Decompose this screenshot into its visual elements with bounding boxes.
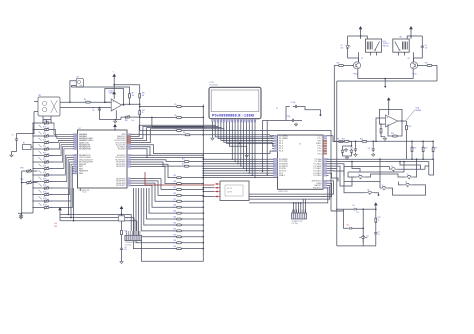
svg-text:LM358N: LM358N <box>415 110 421 112</box>
svg-text:RD7/PSP7: RD7/PSP7 <box>116 185 125 187</box>
svg-text:RT5: RT5 <box>43 146 46 148</box>
svg-text:R3: R3 <box>337 139 339 141</box>
svg-text:R25: R25 <box>414 147 417 149</box>
svg-text:P1.1/AIN1: P1.1/AIN1 <box>279 137 288 140</box>
svg-text:Q6: Q6 <box>407 174 409 176</box>
svg-text:R4: R4 <box>84 99 86 101</box>
svg-text:C2 22p: C2 22p <box>291 102 296 104</box>
svg-text:AT89C2051: AT89C2051 <box>279 190 288 193</box>
svg-text:RT12: RT12 <box>43 191 47 193</box>
svg-text:R31: R31 <box>174 223 177 225</box>
svg-text:CX2 Plug: CX2 Plug <box>292 223 299 225</box>
svg-text:R34: R34 <box>174 240 177 242</box>
svg-text:R25: R25 <box>174 187 177 189</box>
svg-text:CONNECTOR2: CONNECTOR2 <box>292 221 303 223</box>
svg-text:RT9: RT9 <box>43 172 46 174</box>
svg-text:RT7: RT7 <box>43 159 46 161</box>
svg-text:XTAL2: XTAL2 <box>316 142 322 145</box>
svg-text:C6: C6 <box>378 232 380 234</box>
svg-text:R10: R10 <box>142 93 145 95</box>
svg-text:Р0е08888888.8□∙138Ю: Р0е08888888.8□∙138Ю <box>212 114 255 118</box>
svg-text:RV2: RV2 <box>142 110 145 112</box>
svg-text:R32: R32 <box>174 228 177 230</box>
svg-text:R27: R27 <box>174 199 177 201</box>
svg-text:X2: X2 <box>127 218 129 220</box>
svg-text:R30: R30 <box>174 217 177 219</box>
svg-text:TR1: TR1 <box>38 95 41 97</box>
svg-text:LS1: LS1 <box>76 76 79 78</box>
svg-text:R5: R5 <box>175 104 177 106</box>
svg-text:R27: R27 <box>435 147 438 149</box>
svg-text:R17: R17 <box>425 62 428 64</box>
svg-text:R33: R33 <box>174 234 177 236</box>
svg-text:C9: C9 <box>425 45 427 47</box>
svg-text:C4: C4 <box>125 247 127 249</box>
svg-text:R9: R9 <box>132 93 134 95</box>
svg-text:R8: R8 <box>183 132 185 134</box>
svg-text:10k: 10k <box>142 95 145 97</box>
svg-text:P3.3: P3.3 <box>318 153 322 155</box>
svg-text:TORPBSW1 ICSP: TORPBSW1 ICSP <box>125 242 138 244</box>
svg-text:R26: R26 <box>174 193 177 195</box>
svg-text:RL2: RL2 <box>383 41 386 43</box>
svg-text:Q2: Q2 <box>408 58 410 60</box>
svg-text:VPP: VPP <box>54 226 57 228</box>
svg-text:RV1: RV1 <box>125 120 128 122</box>
svg-text:C8: C8 <box>92 108 94 110</box>
svg-text:12V: 12V <box>357 212 360 214</box>
svg-text:R35: R35 <box>174 246 177 248</box>
svg-text:P2.7/A15: P2.7/A15 <box>314 174 322 177</box>
svg-text:Q8: Q8 <box>405 182 407 184</box>
svg-text:KBE-12V: KBE-12V <box>383 45 389 47</box>
svg-text:LED: LED <box>341 47 344 49</box>
svg-text:Q1: Q1 <box>361 58 363 60</box>
svg-text:R12: R12 <box>182 163 185 165</box>
svg-text:RT3: RT3 <box>43 133 46 135</box>
svg-text:RT1: RT1 <box>43 120 46 122</box>
svg-text:10k: 10k <box>132 120 135 122</box>
svg-text:RD2/PSP2: RD2/PSP2 <box>116 166 125 168</box>
svg-text:R6: R6 <box>175 115 177 117</box>
svg-text:RE1/AN6/WR: RE1/AN6/WR <box>79 148 91 151</box>
svg-text:R14: R14 <box>360 138 363 140</box>
svg-text:TEXTELL-: TEXTELL- <box>383 43 390 45</box>
svg-text:R18: R18 <box>391 133 394 135</box>
svg-text:D2 RX: D2 RX <box>227 192 233 194</box>
svg-text:D7: D7 <box>341 45 343 47</box>
svg-text:D9: D9 <box>353 205 355 207</box>
svg-text:R29: R29 <box>174 211 177 213</box>
svg-text:RC4/SDI: RC4/SDI <box>118 149 126 151</box>
svg-text:D10: D10 <box>347 225 350 227</box>
svg-text:RL1: RL1 <box>400 37 403 39</box>
svg-text:R28: R28 <box>174 205 177 207</box>
svg-text:Q7: Q7 <box>382 185 384 187</box>
svg-text:Q4: Q4 <box>391 166 393 168</box>
svg-text:RT11: RT11 <box>43 185 47 187</box>
svg-text:MDLS16265: MDLS16265 <box>210 85 219 87</box>
svg-text:1u: 1u <box>378 234 380 236</box>
svg-text:Q5: Q5 <box>358 174 360 176</box>
svg-text:RT4: RT4 <box>43 139 46 141</box>
svg-text:R19: R19 <box>409 126 412 128</box>
svg-text:RT13: RT13 <box>43 198 47 200</box>
svg-text:R12: R12 <box>342 138 345 140</box>
svg-text:1uF: 1uF <box>425 47 428 49</box>
svg-text:10u: 10u <box>92 110 95 112</box>
svg-text:RT10: RT10 <box>43 178 47 180</box>
svg-text:Q9: Q9 <box>367 190 369 192</box>
svg-text:RT8: RT8 <box>43 165 46 167</box>
svg-text:X1: X1 <box>276 108 278 110</box>
svg-text:TIP122: TIP122 <box>353 74 358 76</box>
svg-text:RXD/P3.0: RXD/P3.0 <box>313 188 322 190</box>
svg-text:R11: R11 <box>182 159 185 161</box>
svg-text:Q3: Q3 <box>367 236 369 238</box>
svg-text:LCD1: LCD1 <box>210 82 215 84</box>
svg-text:TIP122: TIP122 <box>412 74 417 76</box>
svg-text:U3: U3 <box>299 144 301 146</box>
svg-text:XTAL1: XTAL1 <box>279 174 285 177</box>
svg-text:RT6: RT6 <box>43 152 46 154</box>
svg-text:P1.6: P1.6 <box>279 151 283 153</box>
svg-text:R16: R16 <box>337 62 340 64</box>
svg-text:RT2: RT2 <box>43 126 46 128</box>
svg-text:CX1 Plug: CX1 Plug <box>125 245 132 247</box>
svg-text:R2: R2 <box>23 143 25 145</box>
svg-text:C7: C7 <box>12 134 14 136</box>
svg-text:10k: 10k <box>132 95 135 97</box>
svg-text:C12: C12 <box>368 148 371 150</box>
svg-text:C1 22p: C1 22p <box>82 192 87 194</box>
svg-text:RV3: RV3 <box>21 168 24 170</box>
svg-text:V: V <box>113 72 114 74</box>
svg-text:R26: R26 <box>425 147 428 149</box>
svg-text:R24: R24 <box>174 181 177 183</box>
svg-text:R22: R22 <box>378 217 381 219</box>
svg-text:C10: C10 <box>350 148 353 150</box>
svg-text:R21: R21 <box>125 231 128 233</box>
svg-text:R23: R23 <box>174 175 177 177</box>
svg-text:RT14: RT14 <box>43 204 47 206</box>
svg-text:22u: 22u <box>125 249 128 251</box>
svg-text:U2: U2 <box>79 128 81 130</box>
